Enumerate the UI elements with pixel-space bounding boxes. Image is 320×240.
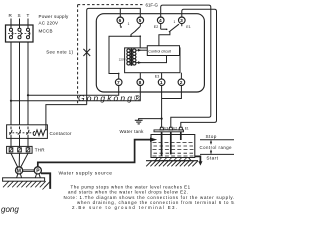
pump mount legs [35,174,40,178]
svg-text:2.Be sure to ground terminal E: 2.Be sure to ground terminal E3. [72,205,178,210]
terminal 6 [117,17,124,24]
machine base bar [3,178,45,181]
breaker MCCB box [6,25,34,42]
wire terminal 2 to inner box [180,73,182,79]
contact Tb under terminals 6-5 [120,22,140,32]
svg-text:E3: E3 [164,127,168,131]
svg-text:1: 1 [174,20,176,24]
wire phase S vertical [19,42,21,125]
terminal 3 [179,17,186,24]
node T to unit terminal 7 junction [27,94,29,96]
thermal relay THR box [7,146,32,153]
arrow up control range [210,140,212,144]
wire terminal 4 over top to E2 [161,5,211,127]
node R to unit terminal 8 junction [10,100,12,102]
svg-text:Power supply: Power supply [39,14,70,19]
transformer T1 windings [127,48,136,66]
wire contactor to THR 2 [19,138,21,147]
electrode cap E1 [179,127,183,130]
motor mount legs [17,174,22,178]
contactor box [7,125,48,139]
water surface dashes [153,143,194,156]
svg-text:E3: E3 [155,75,159,79]
THR element 3 [26,148,30,152]
wire terminal 6 stub up [119,8,121,17]
node ground junction [161,118,163,120]
svg-text:See note 1): See note 1) [46,49,73,54]
control circuit box [147,46,179,56]
wire THR to motor 2 [18,153,20,167]
pipe arrow into tank [150,138,157,142]
wire contactor to THR 1 [10,138,12,147]
svg-text:61F-G: 61F-G [146,3,159,8]
wire terminal 7 stub [118,74,120,79]
MCCB pole 1 [9,28,12,39]
ground earth symbol [135,120,143,124]
wire terminal 1 down to electrode E3 [161,86,163,128]
svg-text:E2: E2 [154,25,158,29]
svg-text:Contactor: Contactor [50,131,72,136]
arrow down control range [210,150,212,154]
svg-text:gong: gong [1,205,19,214]
svg-text:220V: 220V [119,58,126,62]
contactor contact 3 [26,127,29,139]
electrode rod E3 [161,132,163,156]
tank foundation hatched [146,161,198,167]
terminal 7 [115,79,122,86]
wire transformer secondary bottom arrow [136,56,167,64]
wire THR to motor 1 [11,153,18,167]
svg-text:3: 3 [180,18,183,24]
electrode cap E3 [160,127,164,130]
svg-text:1: 1 [160,80,163,86]
wire T stub into MCCB [27,19,29,29]
terminal 5 [137,17,144,24]
X cut mark see note [83,49,90,56]
wire terminal 3 over top to E1 [181,9,217,127]
svg-text:4: 4 [159,18,162,24]
node t7 junction [118,73,120,75]
svg-text:E2: E2 [173,127,177,131]
svg-text:Stop: Stop [206,134,217,139]
svg-text:E1: E1 [186,25,190,29]
node coil junction [45,129,47,131]
svg-text:Start: Start [206,156,218,161]
dashed boundary 61F-G left [77,5,79,104]
start level line [200,153,234,155]
contactor contact 1 [9,127,12,139]
electrode rod E2 [170,132,172,155]
svg-text:E1: E1 [185,127,189,131]
svg-text:7: 7 [117,80,120,86]
svg-text:S: S [18,13,21,18]
svg-text:Control circuit: Control circuit [148,49,171,53]
electrode cap E2 [169,127,173,130]
wire contact 4-3 common to control box [159,31,170,45]
wire THR to motor 3 [21,153,28,167]
svg-text:THR: THR [35,147,46,152]
wire terminal 2 down to junction [162,86,182,99]
wire to earth [139,119,162,121]
wire R phase to terminal 8 [11,86,140,101]
svg-text:MCCB: MCCB [39,29,53,34]
svg-text:1: 1 [128,22,130,26]
shaft coupling M-P [23,170,34,172]
MCCB linkage dashed [8,33,31,35]
wire transformer secondary top arrow [136,49,147,52]
pipe tank drain arrow [195,156,203,165]
contactor linkage dashed [9,132,33,134]
electrode holder bar [154,130,184,132]
svg-text:R: R [9,13,13,18]
terminal 1 [158,79,165,86]
svg-text:Water supply source: Water supply source [59,171,113,177]
svg-text:2: 2 [180,80,183,86]
electrode rod E1 [180,132,182,140]
wire S stub into MCCB [19,19,21,29]
pump P [34,167,41,175]
svg-text:T: T [27,13,30,18]
svg-text:M: M [17,169,21,175]
terminal 2 [178,79,185,86]
svg-text:8: 8 [139,80,142,86]
contactor coil M [33,130,45,136]
stop level line [200,139,234,141]
contactor contact 2 [18,127,21,139]
op unit 61F rounded body [96,14,204,92]
pipe pump suction [41,173,50,189]
wire coil to terminal loop [46,105,87,130]
THR element 2 [18,148,22,152]
node terminal 7 stub junction [139,35,141,37]
tank pedestal [155,158,191,161]
svg-text:AC 220V: AC 220V [39,20,59,25]
MCCB pole 3 [26,28,29,39]
base hatching [3,181,50,189]
THR element 1 [9,148,13,152]
water tank body [151,135,195,158]
svg-text:5: 5 [139,18,142,24]
wire phase R vertical [10,42,12,125]
svg-text:Water tank: Water tank [120,129,145,134]
svg-text:Control range: Control range [200,145,233,150]
wire phase T vertical [27,42,29,125]
motor M [16,167,23,175]
svg-text:6: 6 [119,18,122,24]
dashed boundary 61F-G top [78,4,143,6]
wire bus to transformer primary [131,36,140,48]
wire contactor to THR 3 [27,138,29,147]
wire terminal 5 loop over top [87,8,141,104]
contact Ta under terminals 4-3 [161,20,182,32]
terminal 4 [157,17,164,24]
terminal 8 [137,79,144,86]
pipe pump discharge to tank [38,140,151,168]
svg-text:Gongkong®: Gongkong® [78,93,142,103]
node bus to transformer [130,35,132,37]
wire T phase to terminal 7 [28,86,119,96]
wire R stub into MCCB [10,19,12,29]
wire contact 6-5 common bus [109,32,134,74]
control assembly inner box [125,48,180,73]
wire terminal 1 to inner box [161,73,163,79]
MCCB pole 2 [18,28,21,39]
wire terminal 8 to inner box [139,73,141,79]
